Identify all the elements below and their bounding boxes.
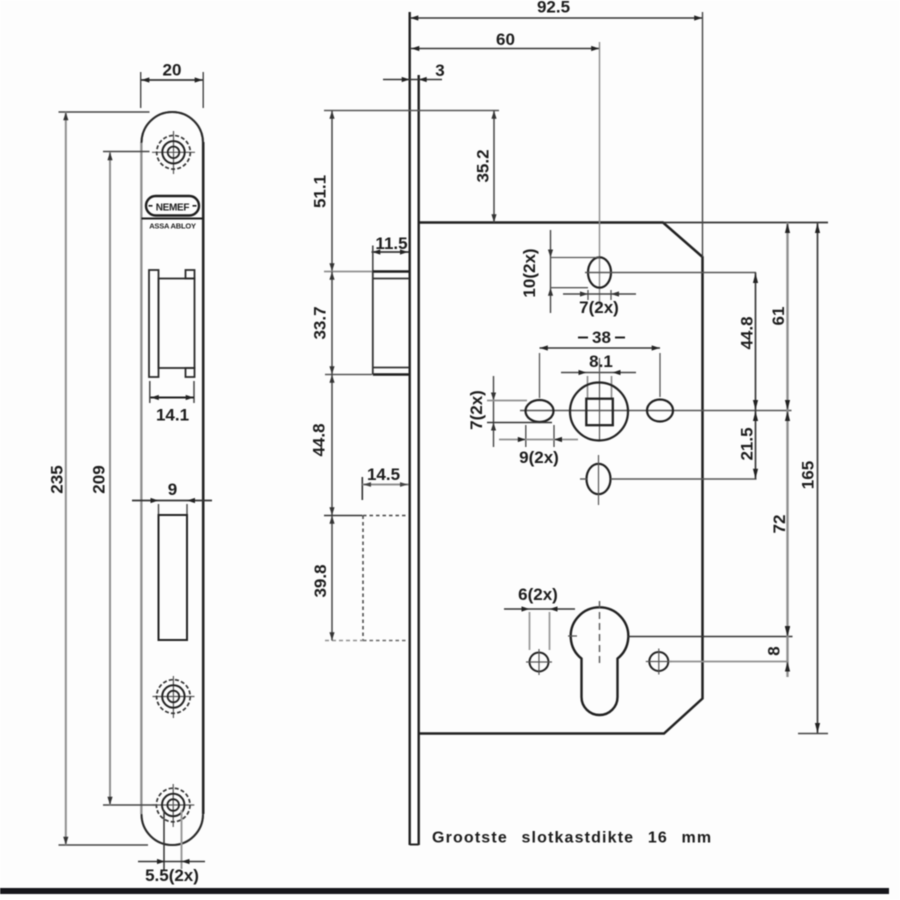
dim 165 — [799, 223, 821, 734]
small hole right of cylinder — [646, 649, 788, 675]
upper oval hole — [585, 257, 756, 287]
svg-text:60: 60 — [496, 30, 515, 49]
svg-text:ASSA ABLOY: ASSA ABLOY — [149, 222, 196, 231]
NEMEF logo — [146, 196, 199, 216]
svg-text:20: 20 — [163, 61, 182, 80]
dim 209 — [90, 152, 158, 806]
dim 235 — [48, 112, 150, 845]
dim 8 — [765, 627, 791, 678]
svg-text:21.5: 21.5 — [738, 427, 757, 460]
dim 44.8 left — [310, 375, 335, 516]
svg-text:35.2: 35.2 — [474, 149, 493, 182]
svg-text:6(2x): 6(2x) — [518, 585, 558, 604]
dim 9(2x) — [499, 425, 578, 467]
dim 14.5 — [362, 465, 408, 500]
dim 60 — [411, 30, 600, 305]
dim 33.7 — [311, 272, 335, 375]
svg-text:235: 235 — [48, 465, 67, 493]
svg-text:209: 209 — [90, 465, 109, 493]
dim 21.5 — [738, 411, 759, 480]
deadbolt cutout front view — [159, 515, 188, 640]
svg-text:33.7: 33.7 — [311, 306, 330, 339]
svg-text:14.5: 14.5 — [367, 465, 400, 484]
svg-text:39.8: 39.8 — [311, 564, 330, 597]
dim 61 — [769, 223, 790, 411]
svg-text:10(2x): 10(2x) — [520, 248, 539, 297]
extension latch bottom — [325, 374, 372, 376]
latch pocket side view — [373, 272, 409, 375]
right hole 9x7 — [647, 400, 673, 422]
top screw hole — [152, 131, 195, 174]
svg-text:61: 61 — [769, 307, 788, 326]
deadbolt pocket side view dashed — [363, 516, 409, 641]
bottom black bar — [0, 888, 889, 894]
extension latch top — [324, 271, 372, 273]
dim 51.1 — [311, 111, 335, 272]
dim 92.5 — [410, 0, 703, 257]
dim 6(2x) — [504, 585, 575, 650]
dim 10(2x) — [520, 230, 600, 313]
top reference extension line left — [324, 110, 499, 112]
follower square — [586, 399, 613, 426]
svg-text:51.1: 51.1 — [311, 175, 330, 208]
small hole left of cylinder — [526, 649, 552, 675]
svg-text:92.5: 92.5 — [537, 0, 570, 17]
svg-text:8: 8 — [765, 646, 784, 655]
dim 20 — [141, 61, 204, 109]
dim 11.5 — [372, 234, 409, 272]
dim 44.8 right — [738, 273, 759, 411]
dim 39.8 — [311, 516, 335, 641]
follower centerlines — [520, 358, 792, 441]
svg-text:8.1: 8.1 — [589, 352, 613, 371]
extension deadbolt bottom — [325, 640, 363, 642]
faceplate divider line — [142, 218, 204, 220]
svg-text:9(2x): 9(2x) — [519, 448, 559, 467]
latch cutout front view — [149, 270, 195, 377]
lock case outline — [419, 223, 703, 734]
dim 8.1 — [561, 352, 636, 399]
svg-text:165: 165 — [799, 461, 818, 489]
svg-text:9: 9 — [168, 480, 177, 499]
lower oval hole — [580, 455, 757, 505]
extension deadbolt top — [324, 515, 363, 517]
svg-text:NEMEF: NEMEF — [156, 203, 190, 214]
bottom screw hole — [152, 784, 194, 827]
dim 5.5(2x) — [138, 810, 205, 885]
dim 9 — [132, 480, 212, 517]
dim 72 — [770, 411, 790, 637]
svg-text:7(2x): 7(2x) — [467, 390, 486, 430]
dim 3 — [383, 61, 445, 82]
svg-text:38: 38 — [592, 328, 611, 347]
dim 38 — [540, 328, 661, 398]
dim 35.2 — [474, 111, 497, 223]
middle screw hole — [153, 676, 195, 718]
faceplate front view outline — [141, 112, 203, 845]
left hole 9x7 — [526, 400, 554, 422]
svg-text:Grootste slotkastdikte 16 mm: Grootste slotkastdikte 16 mm — [432, 830, 712, 847]
top edge extension over right dim columns — [663, 222, 828, 224]
dim 7(2x) upper — [563, 290, 636, 317]
svg-text:44.8: 44.8 — [310, 423, 329, 456]
dim 14.1 — [150, 381, 194, 425]
svg-text:7(2x): 7(2x) — [579, 298, 619, 317]
svg-text:14.1: 14.1 — [156, 406, 189, 425]
bottom right extension line — [798, 733, 828, 735]
svg-text:72: 72 — [770, 515, 789, 534]
side view faceplate bar — [410, 12, 419, 845]
svg-text:3: 3 — [435, 61, 444, 80]
dim 7(2x) left — [467, 376, 552, 447]
svg-text:44.8: 44.8 — [738, 316, 757, 349]
svg-text:5.5(2x): 5.5(2x) — [145, 866, 199, 885]
euro cylinder hole — [568, 601, 793, 715]
follower circle — [570, 383, 628, 441]
